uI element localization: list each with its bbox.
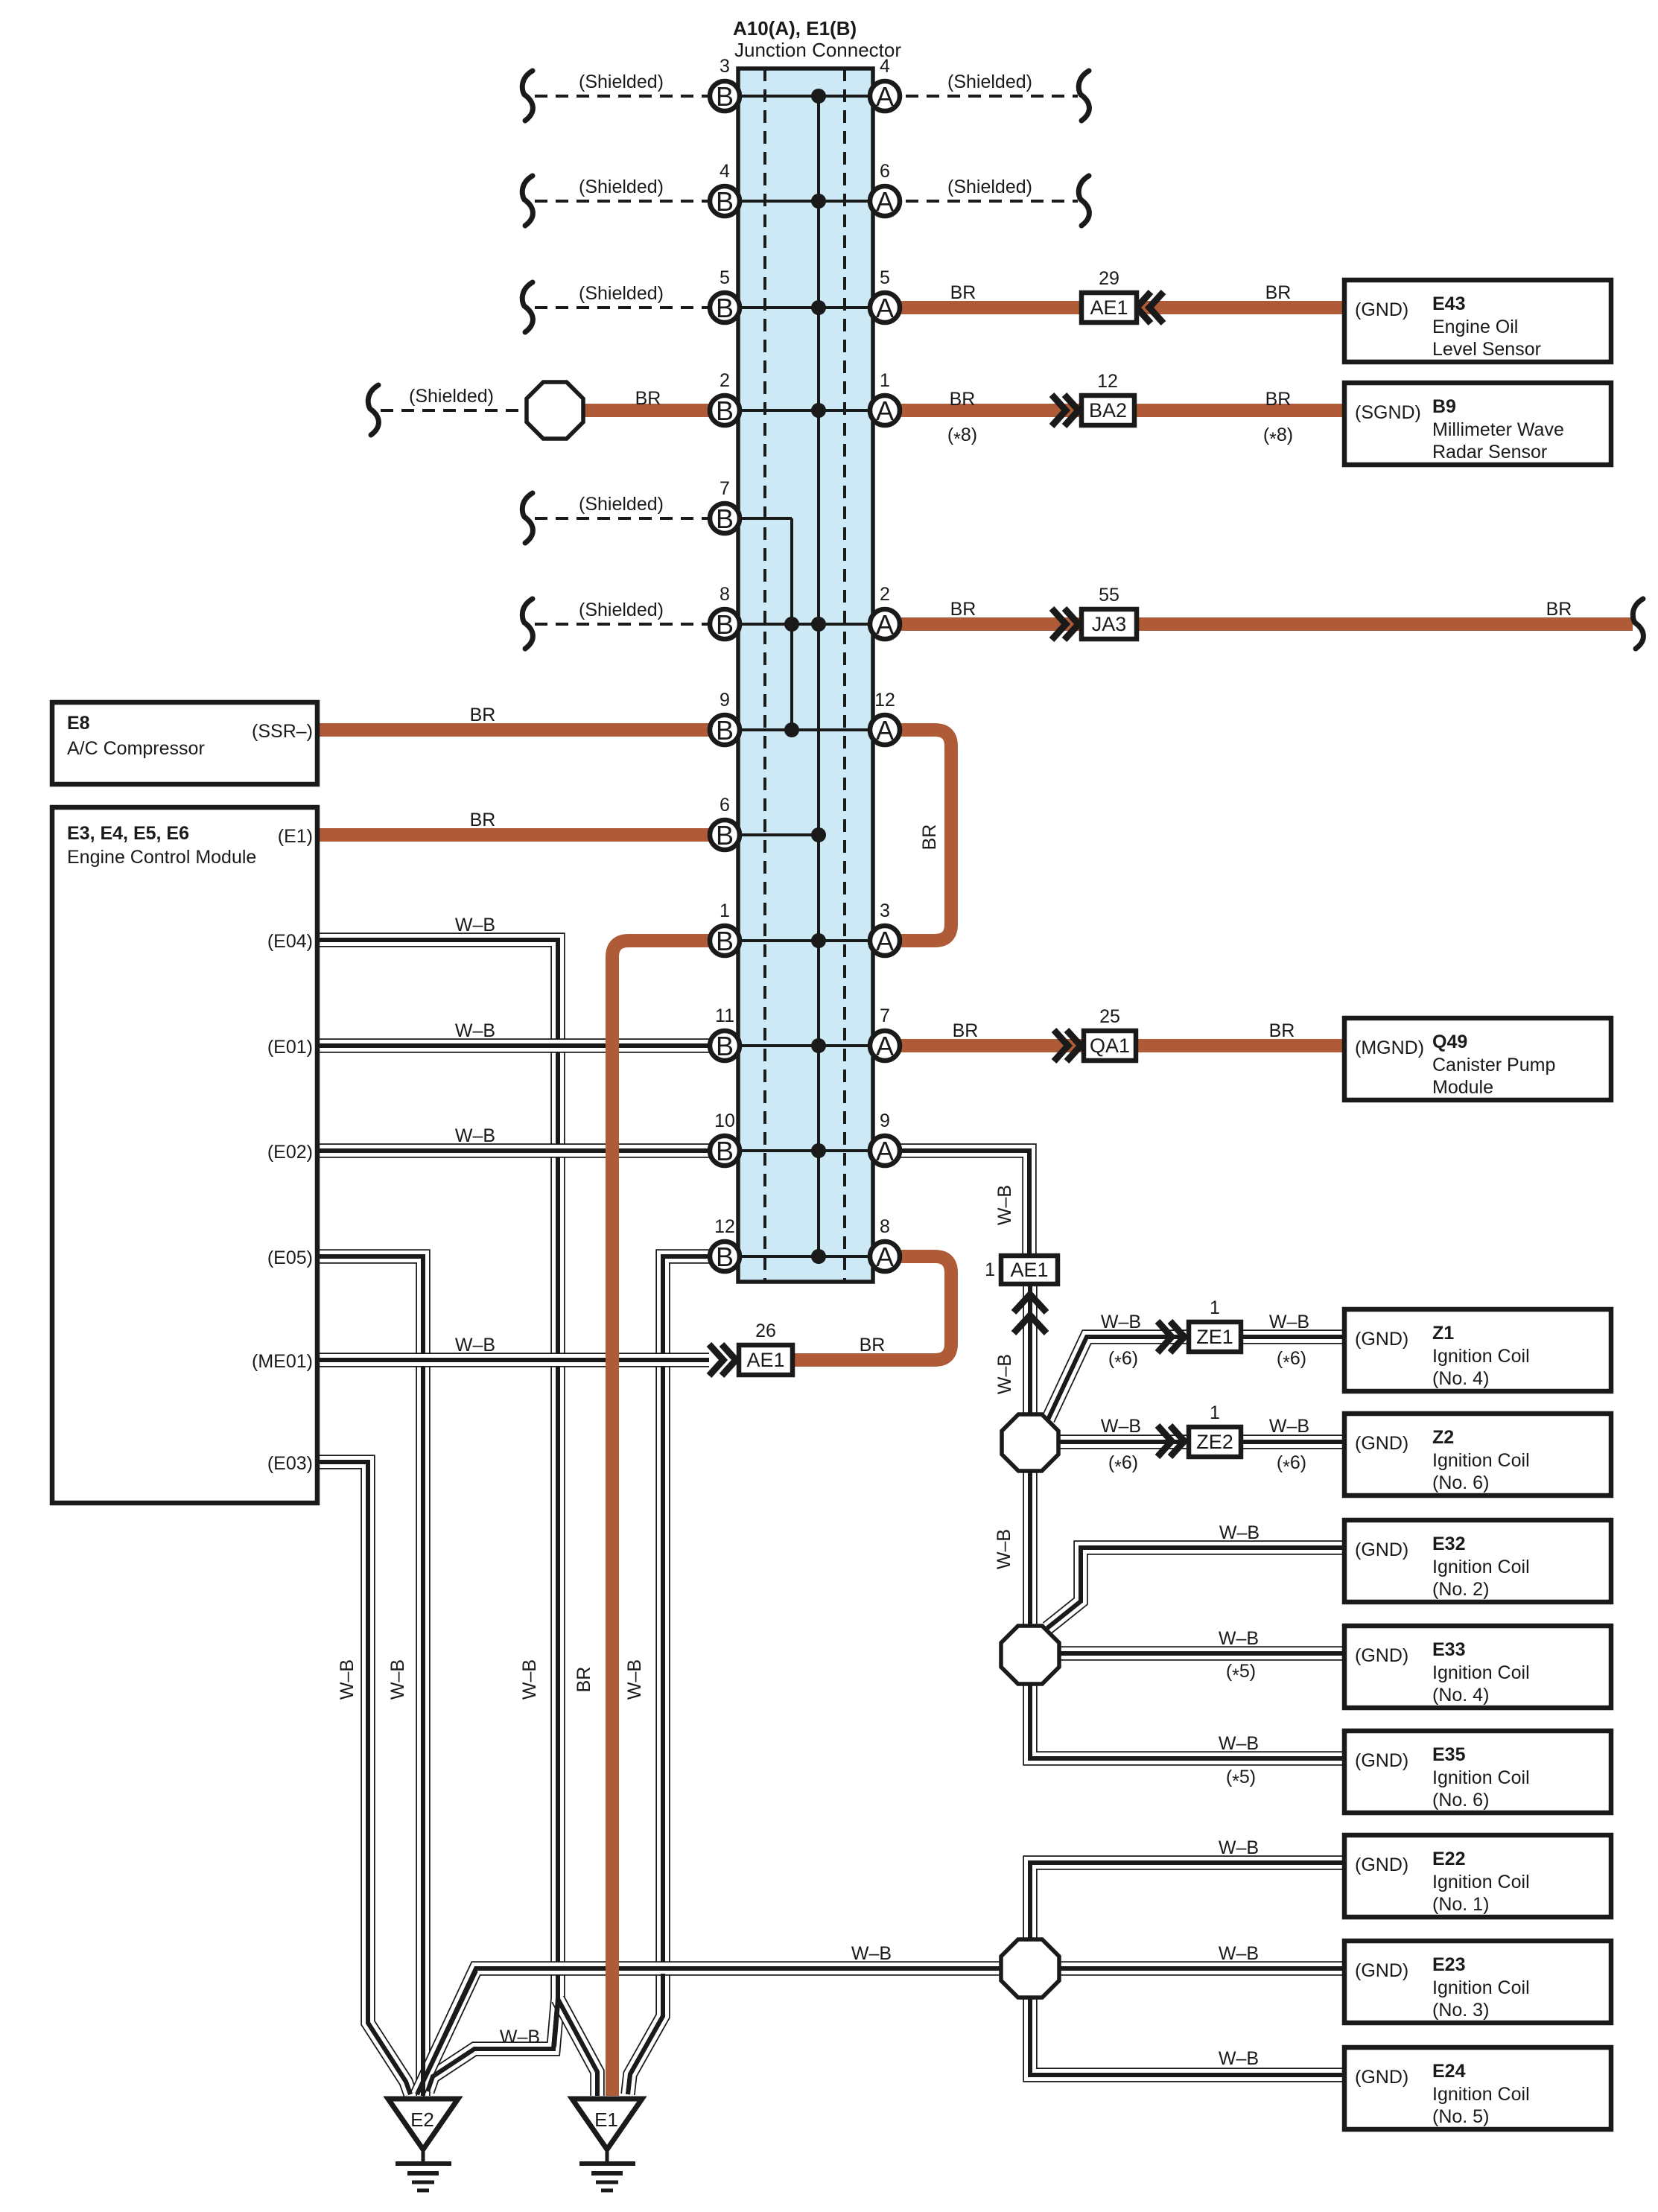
label BR E1 wire — [470, 810, 496, 830]
svg-text:B: B — [716, 1136, 734, 1166]
svg-text:A: A — [876, 1242, 894, 1272]
svg-text:W–B: W–B — [519, 1659, 540, 1700]
svg-text:W–B: W–B — [1269, 1416, 1309, 1437]
svg-text:BR: BR — [1265, 282, 1292, 303]
label W-B E23 right — [1219, 1943, 1259, 1964]
svg-text:W–B: W–B — [994, 1185, 1015, 1225]
wire internal bus B7-B9 — [790, 518, 793, 730]
wire pin row B-A (row 2) — [725, 200, 885, 203]
label W-B A9 rotated — [994, 1185, 1015, 1225]
svg-text:(No. 4): (No. 4) — [1432, 1368, 1489, 1389]
wire pin row B-A (row 6) — [725, 623, 885, 626]
junction dot 4 — [811, 403, 826, 418]
svg-text:W–B: W–B — [455, 1125, 495, 1146]
svg-text:W–B: W–B — [851, 1943, 892, 1964]
connector JA3 pin 55 — [1081, 585, 1137, 639]
chevron right AE1 26 — [709, 1344, 736, 1376]
pin B4 — [710, 161, 740, 217]
svg-text:A: A — [876, 293, 894, 323]
pin A1 — [870, 370, 900, 426]
wire BR E8 SSR- to B9 pin — [317, 723, 710, 737]
wire shielded (right, row 1) — [885, 71, 1089, 121]
svg-text:Z1: Z1 — [1432, 1323, 1454, 1344]
svg-text:(No. 5): (No. 5) — [1432, 2106, 1489, 2127]
chevron right BA2 — [1052, 395, 1079, 426]
wire W-B splice to E32 — [1047, 1548, 1344, 1628]
svg-text:A: A — [876, 1136, 894, 1166]
wire W-B splice to ZE2 — [1058, 1434, 1344, 1449]
pin A9 — [870, 1110, 900, 1166]
svg-text:Module: Module — [1432, 1077, 1493, 1098]
svg-text:(MGND): (MGND) — [1355, 1037, 1424, 1058]
svg-text:1: 1 — [1210, 1297, 1220, 1318]
junction connector title — [733, 17, 901, 61]
pin B11 — [710, 1005, 740, 1061]
component E24 Ignition Coil No.5 — [1344, 2047, 1611, 2129]
svg-text:E33: E33 — [1432, 1639, 1465, 1660]
svg-text:(GND): (GND) — [1355, 1645, 1408, 1666]
label (Shielded) left row 5 — [579, 494, 664, 515]
svg-text:(E02): (E02) — [267, 1142, 313, 1163]
wire W-B E02 to B10 — [317, 1143, 725, 1158]
label BR bottom rotated — [574, 1667, 594, 1693]
junction dot 3 — [811, 300, 826, 315]
label (Shielded) row 4 — [409, 386, 494, 407]
svg-text:(Shielded): (Shielded) — [579, 71, 664, 92]
svg-text:Millimeter Wave: Millimeter Wave — [1432, 419, 1564, 440]
wire shielded (left, row 5) — [522, 493, 725, 543]
wire W-B splice to splice (ignition coils) — [1023, 1471, 1038, 1627]
splice ignition coils 2 — [1001, 1626, 1059, 1684]
wire W-B splice to E33 — [1058, 1646, 1344, 1661]
pin A4 — [870, 56, 900, 112]
svg-text:12: 12 — [1097, 371, 1118, 392]
svg-text:9: 9 — [720, 690, 730, 711]
junction dot 2 — [811, 194, 826, 209]
wire pin row B-A (row 4) — [725, 409, 885, 412]
junction dot 10 — [811, 1249, 826, 1264]
wire shielded (left, row 6) — [522, 599, 725, 649]
svg-text:E3, E4, E5, E6: E3, E4, E5, E6 — [67, 823, 189, 844]
svg-text:W–B: W–B — [500, 2027, 540, 2047]
svg-text:Q49: Q49 — [1432, 1032, 1467, 1052]
wire pin row B-A (row 12) — [725, 1255, 885, 1258]
svg-text:W–B: W–B — [455, 915, 495, 935]
svg-text:Junction Connector: Junction Connector — [734, 39, 901, 61]
svg-text:1: 1 — [985, 1259, 995, 1280]
label (Shielded) left row 6 — [579, 600, 664, 620]
svg-text:A: A — [876, 1031, 894, 1061]
svg-text:A: A — [876, 186, 894, 217]
svg-text:BR: BR — [574, 1667, 594, 1693]
svg-text:B: B — [716, 293, 734, 323]
svg-text:(Shielded): (Shielded) — [579, 494, 664, 515]
label W-B E35 — [1219, 1733, 1259, 1754]
svg-text:BR: BR — [919, 824, 940, 851]
pin B8 — [710, 584, 740, 640]
component E43 Engine Oil Level Sensor — [1344, 280, 1611, 362]
svg-text:Z2: Z2 — [1432, 1427, 1454, 1448]
label (Shielded) right row 1 — [947, 71, 1032, 92]
wire pin row B-A (row 9) — [725, 939, 885, 942]
svg-text:BR: BR — [950, 599, 976, 620]
svg-text:W–B: W–B — [1219, 2048, 1259, 2069]
component E22 Ignition Coil No.1 — [1344, 1835, 1611, 1917]
svg-text:E32: E32 — [1432, 1534, 1465, 1554]
svg-text:E43: E43 — [1432, 293, 1465, 314]
svg-text:55: 55 — [1099, 585, 1119, 606]
component E32 Ignition Coil No.2 — [1344, 1520, 1611, 1602]
svg-text:(GND): (GND) — [1355, 299, 1408, 320]
svg-text:(No. 6): (No. 6) — [1432, 1472, 1489, 1493]
svg-text:(GND): (GND) — [1355, 1433, 1408, 1454]
svg-text:3: 3 — [880, 900, 890, 921]
component E35 Ignition Coil No.6 — [1344, 1731, 1611, 1813]
pin B6 — [710, 795, 740, 851]
svg-text:BR: BR — [635, 388, 661, 409]
svg-text:1: 1 — [720, 900, 730, 921]
label W-B ZE2 left — [1101, 1416, 1141, 1437]
svg-text:W–B: W–B — [1219, 1522, 1260, 1543]
svg-text:(SSR–): (SSR–) — [252, 721, 313, 742]
label *6 ZE1 left — [1108, 1348, 1138, 1373]
junction dot 11 — [784, 617, 799, 632]
svg-text:4: 4 — [880, 56, 890, 77]
wire W-B E04 to ground E2 via branch — [317, 940, 558, 2091]
label BR E8 wire — [470, 705, 496, 725]
label W-B bottom B12 rotated — [624, 1659, 645, 1700]
svg-text:26: 26 — [755, 1320, 776, 1341]
svg-text:3: 3 — [720, 56, 730, 77]
svg-text:AE1: AE1 — [1090, 296, 1128, 319]
wire pin row B-A (row 11) — [725, 1149, 885, 1152]
svg-text:E8: E8 — [67, 713, 90, 734]
pin B5 — [710, 267, 740, 323]
pin B10 — [710, 1110, 740, 1166]
label *5 E35 — [1226, 1767, 1256, 1792]
svg-text:1: 1 — [1210, 1402, 1220, 1423]
svg-text:4: 4 — [720, 161, 730, 182]
wire W-B B12 to ground E1 — [628, 1256, 710, 2094]
svg-text:W–B: W–B — [624, 1659, 645, 1700]
svg-text:W–B: W–B — [994, 1354, 1015, 1394]
connector AE1 pin 29 — [1081, 268, 1137, 322]
svg-text:B: B — [716, 1031, 734, 1061]
svg-text:W–B: W–B — [337, 1659, 358, 1700]
svg-text:A: A — [876, 81, 894, 112]
svg-text:12: 12 — [874, 690, 895, 711]
svg-text:B: B — [716, 395, 734, 426]
wire W-B AE1 pin 1 to splice — [1023, 1284, 1038, 1414]
wire pin row B-A (row 3) — [725, 306, 885, 309]
component E23 Ignition Coil No.3 — [1344, 1941, 1611, 2023]
label W-B E04 — [455, 915, 495, 935]
svg-text:Level Sensor: Level Sensor — [1432, 339, 1541, 360]
pin B7 — [710, 478, 740, 534]
connector QA1 pin 25 — [1084, 1006, 1136, 1061]
label BR row10 left — [953, 1020, 979, 1041]
wire W-B splice to E35 — [1030, 1682, 1344, 1758]
label W-B bottom E04 rotated — [519, 1659, 540, 1700]
svg-text:E35: E35 — [1432, 1744, 1466, 1765]
label W-B E22 — [1219, 1837, 1259, 1858]
wire shielded (left, row 2) — [522, 176, 725, 226]
svg-text:QA1: QA1 — [1090, 1035, 1130, 1057]
label BR row12 — [860, 1335, 886, 1356]
label W-B ZE1 left — [1101, 1312, 1141, 1332]
label *6 ZE2 right — [1277, 1452, 1306, 1478]
wire W-B E03 to ground E2 — [317, 1462, 410, 2094]
pin B3 — [710, 56, 740, 112]
wire BR A5 to AE1 — [900, 301, 1081, 314]
svg-text:6: 6 — [720, 795, 730, 816]
label W-B merge — [500, 2027, 540, 2047]
label BR loop rotated — [919, 824, 940, 851]
svg-text:Ignition Coil: Ignition Coil — [1432, 1767, 1530, 1788]
component Q49 Canister Pump Module — [1344, 1018, 1611, 1100]
svg-text:(GND): (GND) — [1355, 1539, 1408, 1560]
splice ignition coils 3 — [1001, 1939, 1059, 1998]
svg-text:29: 29 — [1099, 268, 1119, 289]
svg-text:(No. 2): (No. 2) — [1432, 1579, 1489, 1600]
svg-text:(Shielded): (Shielded) — [947, 177, 1032, 197]
pin B9 — [710, 690, 740, 746]
chevron right ZE2 — [1157, 1426, 1184, 1457]
label (Shielded) left row 3 — [579, 283, 664, 304]
wire shielded (right, row 2) — [885, 176, 1089, 226]
svg-text:(GND): (GND) — [1355, 1855, 1408, 1875]
wire W-B splice to E24 — [1030, 1995, 1344, 2075]
svg-text:W–B: W–B — [1219, 1943, 1259, 1964]
svg-text:W–B: W–B — [1101, 1312, 1141, 1332]
svg-text:Ignition Coil: Ignition Coil — [1432, 1346, 1530, 1367]
svg-text:(Shielded): (Shielded) — [579, 600, 664, 620]
svg-text:5: 5 — [880, 267, 890, 288]
svg-text:(SGND): (SGND) — [1355, 402, 1421, 423]
chevron right ZE1 — [1157, 1321, 1184, 1353]
svg-text:(Shielded): (Shielded) — [579, 177, 664, 197]
svg-text:E22: E22 — [1432, 1849, 1465, 1869]
wire BR BA2 to B9 sensor — [1134, 404, 1344, 417]
svg-text:A: A — [876, 395, 894, 426]
svg-text:10: 10 — [714, 1110, 735, 1131]
svg-text:ZE1: ZE1 — [1196, 1326, 1233, 1348]
chevron right JA3 — [1052, 608, 1079, 640]
svg-text:AE1: AE1 — [746, 1349, 784, 1371]
ground E2 — [388, 2099, 458, 2190]
svg-text:W–B: W–B — [1219, 1733, 1259, 1754]
svg-text:(GND): (GND) — [1355, 1750, 1408, 1771]
svg-text:6: 6 — [880, 161, 890, 182]
label *8 row4 mid — [947, 425, 977, 450]
pin B12 — [710, 1216, 740, 1272]
label W-B bottom E05 rotated — [387, 1659, 408, 1700]
label W-B splice1-2 rotated — [994, 1529, 1014, 1569]
svg-text:A10(A), E1(B): A10(A), E1(B) — [733, 17, 857, 39]
label W-B ZE1 right — [1269, 1312, 1309, 1332]
component Z2 Ignition Coil No.6 — [1344, 1414, 1611, 1496]
pin A2 — [870, 584, 900, 640]
svg-text:E24: E24 — [1432, 2061, 1466, 2082]
wire BR A7 to QA1 — [900, 1039, 1084, 1052]
splice (shielded, row 4) — [527, 382, 583, 439]
wire pin row B6 stub — [725, 833, 819, 836]
svg-text:8: 8 — [720, 584, 730, 605]
wire shielded (left, row 4 to splice) — [368, 385, 527, 435]
svg-text:12: 12 — [714, 1216, 735, 1237]
wire W-B ground bus to splice E23 — [417, 1968, 1344, 2094]
component E3,E4,E5,E6 Engine Control Module — [52, 807, 317, 1503]
label BR row3 left — [950, 282, 976, 303]
svg-text:B: B — [716, 609, 734, 640]
wire W-B splice to ZE1 — [1048, 1337, 1344, 1420]
pin A5 — [870, 267, 900, 323]
wire W-B E04 branch to ground E1 — [554, 1966, 597, 2096]
svg-text:2: 2 — [720, 370, 730, 391]
pin B1 — [710, 900, 740, 956]
label *8 row4 right — [1263, 425, 1293, 450]
svg-text:BR: BR — [1546, 599, 1572, 620]
svg-text:B: B — [716, 81, 734, 112]
label W-B AE1-splice rotated — [994, 1354, 1015, 1394]
junction dot 1 — [811, 89, 826, 104]
label W-B E24 — [1219, 2048, 1259, 2069]
label W-B E23 bus — [851, 1943, 892, 1964]
svg-text:5: 5 — [720, 267, 730, 288]
svg-text:1: 1 — [880, 370, 890, 391]
connector BA2 pin 12 — [1081, 371, 1134, 425]
connector ZE2 pin 1 — [1189, 1402, 1241, 1457]
junction dot 7 — [811, 933, 826, 948]
label W-B E02 — [455, 1125, 495, 1146]
junction dot 8 — [811, 1038, 826, 1053]
svg-text:B: B — [716, 926, 734, 956]
svg-text:W–B: W–B — [387, 1659, 408, 1700]
svg-text:8: 8 — [880, 1216, 890, 1237]
svg-text:(E01): (E01) — [267, 1037, 313, 1058]
label (Shielded) left row 2 — [579, 177, 664, 197]
svg-text:Engine Control Module: Engine Control Module — [67, 847, 256, 868]
svg-text:7: 7 — [720, 478, 730, 499]
wire W-B E01 to B11 — [317, 1038, 725, 1053]
label (Shielded) right row 2 — [947, 177, 1032, 197]
svg-text:BR: BR — [470, 705, 496, 725]
chevron left AE1 row3 — [1137, 292, 1163, 323]
ground E1 — [572, 2099, 642, 2190]
svg-text:(GND): (GND) — [1355, 2067, 1408, 2088]
wire BR A2 to JA3 — [900, 617, 1081, 631]
svg-text:JA3: JA3 — [1092, 613, 1127, 635]
svg-text:(E03): (E03) — [267, 1453, 313, 1474]
svg-text:W–B: W–B — [455, 1020, 495, 1041]
component B9 Millimeter Wave Radar Sensor — [1344, 383, 1611, 465]
svg-text:E23: E23 — [1432, 1954, 1465, 1975]
wire pin row B-A (row 1) — [725, 95, 885, 98]
label W-B ME01 — [455, 1335, 495, 1356]
svg-text:2: 2 — [880, 584, 890, 605]
component E8 A/C Compressor — [52, 702, 317, 784]
svg-text:W–B: W–B — [1219, 1837, 1259, 1858]
label BR row6 right — [1546, 599, 1572, 620]
svg-text:Ignition Coil: Ignition Coil — [1432, 1557, 1530, 1577]
svg-text:A: A — [876, 926, 894, 956]
pin A12 — [870, 690, 900, 746]
pin A7 — [870, 1005, 900, 1061]
svg-text:(GND): (GND) — [1355, 1960, 1408, 1981]
svg-text:W–B: W–B — [1269, 1312, 1309, 1332]
label *6 ZE2 left — [1108, 1452, 1138, 1478]
svg-text:Ignition Coil: Ignition Coil — [1432, 1872, 1530, 1892]
svg-text:9: 9 — [880, 1110, 890, 1131]
svg-text:Radar Sensor: Radar Sensor — [1432, 442, 1547, 463]
svg-text:E1: E1 — [594, 2108, 618, 2131]
svg-text:B: B — [716, 186, 734, 217]
svg-text:W–B: W–B — [1219, 1628, 1259, 1649]
svg-text:7: 7 — [880, 1005, 890, 1026]
svg-text:Ignition Coil: Ignition Coil — [1432, 2084, 1530, 2105]
svg-text:W–B: W–B — [994, 1529, 1014, 1569]
svg-text:B: B — [716, 820, 734, 851]
junction dot 5 — [811, 617, 826, 632]
svg-text:Ignition Coil: Ignition Coil — [1432, 1977, 1530, 1998]
wire BR A8 to connector AE1 26 — [793, 1256, 951, 1360]
svg-text:(No. 1): (No. 1) — [1432, 1894, 1489, 1915]
connector AE1 pin 1 — [985, 1256, 1058, 1284]
svg-text:BR: BR — [953, 1020, 979, 1041]
label *5 E33 — [1226, 1661, 1256, 1686]
svg-text:A: A — [876, 715, 894, 746]
wire BR splice to B2 — [582, 404, 710, 417]
label BR row4 right — [1265, 389, 1292, 410]
svg-text:AE1: AE1 — [1010, 1259, 1048, 1281]
wire shielded (left, row 3) — [522, 282, 725, 332]
svg-text:(Shielded): (Shielded) — [409, 386, 494, 407]
svg-text:A: A — [876, 609, 894, 640]
label BR row10 right — [1269, 1020, 1295, 1041]
pin B2 — [710, 370, 740, 426]
wire pin row B-A (row 7) — [725, 728, 885, 731]
junction connector A10(A)/E1(B) body — [738, 69, 873, 1282]
label W-B ZE2 right — [1269, 1416, 1309, 1437]
svg-text:Canister Pump: Canister Pump — [1432, 1055, 1555, 1075]
label W-B bottom E03 rotated — [337, 1659, 358, 1700]
svg-text:B: B — [716, 503, 734, 534]
wire W-B splice to E22 — [1030, 1863, 1344, 1942]
label W-B E33 — [1219, 1628, 1259, 1649]
wire W-B E05 to ground E2 — [317, 1256, 423, 2096]
label BR row6 left — [950, 599, 976, 620]
junction dot 12 — [784, 722, 799, 737]
svg-text:(No. 6): (No. 6) — [1432, 1790, 1489, 1811]
wire BR AE1 to E43 — [1137, 301, 1344, 314]
svg-text:BR: BR — [860, 1335, 886, 1356]
component E33 Ignition Coil No.4 — [1344, 1626, 1611, 1708]
svg-text:Ignition Coil: Ignition Coil — [1432, 1662, 1530, 1683]
svg-text:Engine Oil: Engine Oil — [1432, 317, 1518, 337]
wire BR B1 to ground E1 — [612, 941, 710, 2096]
svg-text:W–B: W–B — [1101, 1416, 1141, 1437]
svg-text:W–B: W–B — [455, 1335, 495, 1356]
svg-text:BR: BR — [470, 810, 496, 830]
label W-B E32 — [1219, 1522, 1260, 1543]
connector AE1 pin 26 — [739, 1320, 793, 1375]
svg-text:A/C Compressor: A/C Compressor — [67, 738, 205, 759]
wire W-B ME01 to connector AE1 — [317, 1353, 709, 1367]
svg-text:(GND): (GND) — [1355, 1329, 1408, 1350]
wire W-B A9 to connector AE1 pin 1 — [885, 1151, 1029, 1259]
svg-text:BR: BR — [1265, 389, 1292, 410]
svg-text:BR: BR — [1269, 1020, 1295, 1041]
